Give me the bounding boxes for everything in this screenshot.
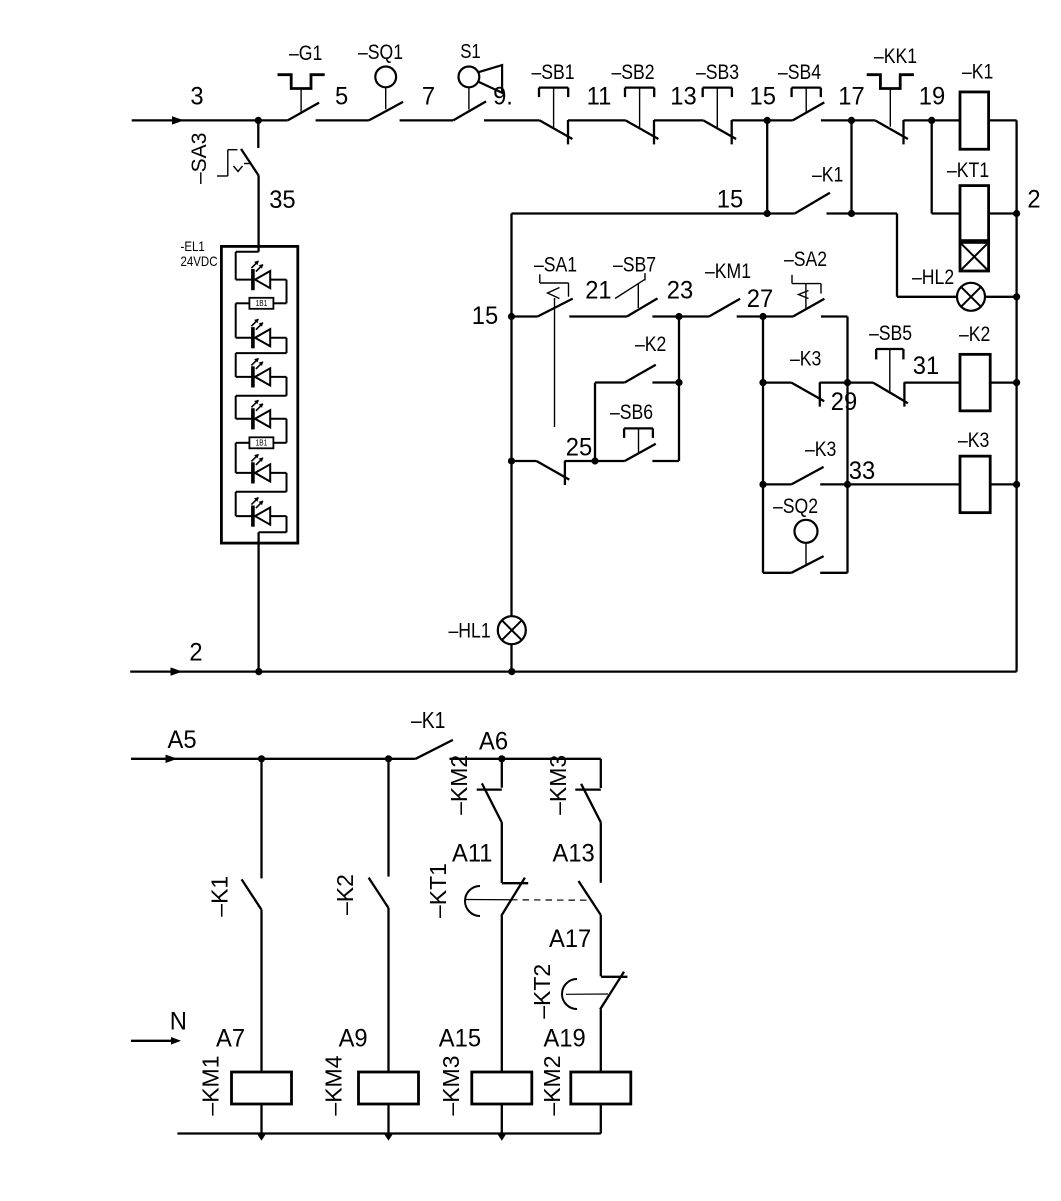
svg-text:9.: 9. (493, 83, 513, 111)
pushbutton -SB2 NC contact (626, 120, 659, 144)
label -SA2 (784, 248, 827, 272)
svg-text:A5: A5 (168, 726, 197, 754)
node label 2 bottom (189, 639, 202, 667)
label -KM4 (321, 1055, 347, 1115)
wire: col2 coil to N rail (384, 1104, 392, 1141)
label -SA1 (534, 253, 577, 277)
node label 25 (566, 434, 592, 462)
wire: K2 subrow seg (595, 381, 625, 383)
svg-text:23: 23 (667, 277, 693, 305)
svg-text:–K1: –K1 (411, 709, 445, 734)
wire: SQ2 branch bottom right (820, 572, 847, 574)
node label 15 (749, 83, 775, 111)
svg-text:–SQ1: –SQ1 (358, 41, 403, 65)
svg-text:A9: A9 (339, 1025, 368, 1053)
wire: N feed arrow (131, 1037, 181, 1045)
selector -SA1 actuator (540, 274, 569, 427)
wire: row3 seg1 (512, 315, 538, 317)
wire: row33 seg2 (820, 483, 960, 485)
svg-text:24VDC: 24VDC (181, 253, 218, 269)
label -SA3 (188, 133, 211, 184)
wire: row3 seg6 (763, 315, 793, 317)
node label 33 (849, 457, 875, 485)
node junction 27-col row29 (759, 379, 766, 386)
pushbutton -SB7 NO contact blade (627, 298, 658, 316)
svg-text:–K3: –K3 (790, 347, 821, 371)
node label A17 (549, 925, 591, 953)
node label 31 (913, 352, 939, 380)
svg-text:–SB3: –SB3 (696, 61, 739, 85)
wire: row29 seg1 (763, 381, 791, 383)
label -KM3 bottom (438, 1056, 464, 1116)
wire: row3 seg3 (652, 315, 679, 317)
label -HL2 (912, 266, 954, 290)
wire: node27 vertical (762, 317, 764, 573)
label -SB1 (532, 61, 575, 85)
timer actuator -KT1 arc and link (465, 886, 588, 916)
wire: line segment KK1 to coil K1 (904, 119, 961, 121)
label -KM2 col3 (446, 755, 472, 815)
contact -KM3 NO col4 (575, 784, 601, 823)
node label 35 (269, 186, 295, 214)
wire: node15 vertical drop (766, 120, 768, 213)
svg-text:19: 19 (919, 83, 945, 111)
label -G1 (289, 42, 322, 66)
LED panel -EL1 enclosure (221, 246, 297, 543)
svg-text:35: 35 (269, 186, 295, 214)
svg-text:2: 2 (189, 639, 202, 667)
svg-text:15: 15 (749, 83, 775, 111)
svg-text:5: 5 (335, 83, 348, 111)
node label 9. (493, 83, 513, 111)
svg-text:A6: A6 (479, 728, 508, 756)
selector -SA3 actuator (217, 150, 251, 176)
pushbutton -SB1 actuator (539, 88, 568, 128)
pushbutton -SB6 actuator (624, 428, 653, 452)
pushbutton -SB4 actuator (792, 88, 821, 112)
label -KT2 (529, 964, 555, 1019)
wire: line segment SB4 to KK1 (821, 119, 875, 121)
node 17 junction (848, 117, 855, 124)
node label A6 (479, 728, 508, 756)
wire: line 3 segment G1 to SQ1 (316, 119, 369, 121)
node label 15 row3 (472, 302, 498, 330)
svg-text:–K2: –K2 (332, 874, 358, 915)
node label 3 (190, 83, 203, 111)
node label 5 (335, 83, 348, 111)
label -KM1 (198, 1056, 224, 1116)
node junction 27 (759, 313, 766, 320)
svg-text:–KK1: –KK1 (874, 45, 917, 69)
wire: right rail vertical (1015, 120, 1017, 671)
node label 21 (585, 277, 611, 305)
svg-text:21: 21 (585, 277, 611, 305)
wire: col4 corner from A5 (600, 759, 602, 788)
label -SB4 (778, 61, 821, 85)
node label 29 (831, 388, 857, 416)
wire: line A5 feed (131, 755, 416, 763)
svg-text:–SB7: –SB7 (613, 253, 656, 277)
label -HL1 (449, 619, 491, 643)
node label 13 (670, 83, 696, 111)
pushbutton -SB4 NO contact (793, 102, 825, 120)
contact -K3 NO row33 (791, 467, 823, 485)
svg-text:17: 17 (838, 83, 864, 111)
wire: branch node19 down to KT1 (932, 120, 960, 213)
LED D4 in -EL1 (236, 400, 287, 430)
svg-text:A11: A11 (452, 840, 492, 868)
LED D5 in -EL1 (236, 454, 287, 484)
svg-text:–K1: –K1 (207, 876, 233, 917)
svg-text:–KM4: –KM4 (321, 1055, 347, 1115)
svg-text:–KM3: –KM3 (545, 755, 571, 815)
svg-text:–SB2: –SB2 (612, 61, 655, 85)
svg-text:–KM1: –KM1 (705, 260, 751, 284)
svg-text:2: 2 (1027, 186, 1040, 214)
svg-text:–G1: –G1 (289, 42, 322, 66)
lamp -HL1 (498, 616, 526, 644)
label -SB7 (613, 253, 656, 277)
svg-text:27: 27 (747, 285, 773, 313)
timer -KT1 delay element (crossed box) (960, 242, 989, 271)
wire: EL1 internal series wiring (236, 252, 287, 533)
node junction right rail K2 (1013, 379, 1020, 386)
label N (170, 1008, 187, 1036)
contactor coil -KM3 (bottom) (472, 1072, 532, 1104)
selector -SA2 contact blade (793, 299, 824, 317)
wire: col3 mid (501, 822, 503, 883)
pushbutton -SB6 NO contact (625, 444, 656, 461)
svg-text:–SB6: –SB6 (610, 401, 653, 425)
svg-text:N: N (170, 1008, 187, 1036)
wire: row33 seg1 (763, 483, 791, 485)
wire: col3 upper (501, 759, 503, 788)
contact -KM2 NO col3 (477, 783, 502, 822)
svg-text:–SA1: –SA1 (534, 253, 577, 277)
svg-text:A13: A13 (553, 840, 595, 868)
wire: row25 seg2 (565, 460, 595, 462)
svg-text:–K3: –K3 (958, 429, 989, 453)
label -SQ1 (358, 41, 403, 65)
contact -K1 NO on line A5 (416, 740, 453, 759)
node label 2 right (1027, 186, 1040, 214)
svg-text:13: 13 (670, 83, 696, 111)
contactor coil -KM1 (232, 1072, 292, 1104)
pushbutton -SB3 NC contact (703, 120, 736, 144)
thermal relay -KK1 actuator (867, 75, 914, 127)
lamp -HL2 (957, 283, 985, 311)
wire: line segment SB1 to SB2 (568, 119, 626, 121)
contact -K2 NO (625, 365, 656, 383)
wire: col3 coil to N rail (498, 1104, 506, 1141)
timed contact -KT2 col4 (600, 972, 627, 1010)
wire: col4 lower (600, 1009, 602, 1072)
wire: line 3 segment SQ1 to S1 (400, 119, 454, 121)
selector -SA2 actuator (792, 275, 821, 308)
svg-text:25: 25 (566, 434, 592, 462)
svg-text:33: 33 (849, 457, 875, 485)
node junction line2 HL1 (508, 668, 515, 675)
node junction 25 (591, 457, 598, 464)
svg-text:–KT1: –KT1 (947, 159, 989, 183)
wire: col4 coil to N rail (600, 1104, 602, 1134)
pushbutton -SB3 actuator (703, 88, 732, 128)
svg-text:A17: A17 (549, 925, 591, 953)
label -SB3 (696, 61, 739, 85)
node label A9 (339, 1025, 368, 1053)
wire: coil K3 to right rail (990, 483, 1016, 485)
label -K3 row29 (790, 347, 821, 371)
label -K1 lower (411, 709, 445, 734)
node label A5 (168, 726, 197, 754)
svg-text:11: 11 (587, 83, 612, 111)
label -EL1 (181, 238, 205, 254)
contact -K1 NO (self hold) (795, 193, 830, 214)
svg-text:–KM1: –KM1 (198, 1056, 224, 1116)
node label 23 (667, 277, 693, 305)
node label 15 row2 (717, 186, 743, 214)
wire: line 3 left feed with arrow (132, 116, 288, 124)
wire: col3 lower (501, 916, 503, 1072)
wire: SA3 to EL1 box (257, 176, 259, 252)
svg-text:A15: A15 (439, 1025, 481, 1053)
svg-text:–K3: –K3 (805, 438, 836, 462)
selector -SA1 second NC contact (537, 461, 570, 485)
svg-text:–HL2: –HL2 (912, 266, 954, 290)
svg-text:–KT1: –KT1 (425, 863, 451, 918)
wire: line A5 seg2 (450, 758, 601, 760)
wire: line segment SB3 to node 15 (732, 119, 793, 121)
node 15 junction (764, 117, 771, 124)
LED D1 in -EL1 (236, 261, 287, 291)
label -K2 col2 (332, 874, 358, 915)
node label 17 (838, 83, 864, 111)
wire: row29 seg2 (820, 381, 873, 383)
node junction row2 x767 (764, 210, 771, 217)
node junction x847 row33 (844, 481, 851, 488)
node label 19 (919, 83, 945, 111)
node junction line2 x259 (255, 668, 262, 675)
resistor 1B1 lower (236, 437, 287, 448)
label -SQ2 (773, 495, 818, 519)
wire: K2 branch riser (594, 383, 596, 462)
timed contact -KT1 col4 (linked) (579, 881, 601, 915)
node junction right rail at KT1 row (1013, 210, 1020, 217)
pushbutton -SB5 actuator (876, 349, 903, 393)
wire: row3 seg4 (679, 315, 709, 317)
wire: node17 vertical drop (850, 120, 852, 213)
wire: col2 lower (387, 908, 389, 1072)
label -KM3 col4 (545, 755, 571, 815)
node junction x679 K2 row (675, 379, 682, 386)
node junction row3 left (508, 313, 515, 320)
svg-text:–K1: –K1 (962, 60, 993, 84)
svg-text:15: 15 (717, 186, 743, 214)
wire: row 15 self-hold line (512, 212, 898, 214)
label -K1 coil (962, 60, 993, 84)
node junction right rail HL2 (1013, 293, 1020, 300)
wire: col4 mid2 (600, 915, 602, 976)
node label A7 (216, 1025, 245, 1053)
wire: x259 drop to SA3 (257, 120, 259, 148)
wire: col2 upper (387, 759, 389, 877)
svg-text:–SB1: –SB1 (532, 61, 575, 85)
wire: neutral rail N (177, 1132, 600, 1134)
node junction right rail K3 (1013, 481, 1020, 488)
node label A19 (544, 1025, 586, 1053)
LED D3 in -EL1 (236, 358, 287, 388)
svg-text:1B1: 1B1 (256, 298, 268, 308)
node junction A5 col1 (258, 755, 265, 762)
contact -K2 vertical NO col2 (369, 878, 389, 908)
svg-text:–KM2: –KM2 (539, 1056, 565, 1116)
node junction A6 (498, 755, 505, 762)
pushbutton -SB1 NC contact (540, 120, 573, 144)
limit switch -SQ1 head (circle) (375, 67, 396, 110)
wire: col4 mid1 (600, 822, 602, 883)
node 19 junction (928, 117, 935, 124)
label -K2 contact (635, 333, 666, 357)
switch -G1 thermal-style actuator (278, 75, 325, 112)
contact -K3 NC row29 (791, 382, 824, 406)
svg-text:29: 29 (831, 388, 857, 416)
limit switch -SQ2 NO contact (791, 556, 823, 573)
label -K3 coil (958, 429, 989, 453)
label -KT1 lower (425, 863, 451, 918)
svg-text:15: 15 (472, 302, 498, 330)
svg-text:–K2: –K2 (959, 323, 990, 347)
relay coil -K2 (960, 354, 990, 411)
node label 11 (587, 83, 612, 111)
switch -SQ1 contact blade (369, 102, 403, 121)
node junction row25 left (508, 457, 515, 464)
wire: row3 seg5 (737, 315, 763, 317)
svg-text:3: 3 (190, 83, 203, 111)
label S1 (460, 40, 481, 63)
svg-text:A7: A7 (216, 1025, 245, 1053)
contact -KM1 NO (709, 299, 740, 317)
wire: SQ2 branch bottom left (763, 572, 791, 574)
node junction at x259 on line 3 (255, 117, 262, 124)
wire: row2 corner down to lamp HL2 (897, 214, 957, 297)
svg-text:S1: S1 (460, 40, 481, 63)
wire: row25 seg4 (652, 460, 679, 462)
svg-text:–HL1: –HL1 (449, 619, 491, 643)
node junction row2 x851 (848, 210, 855, 217)
svg-text:-EL1: -EL1 (181, 238, 205, 254)
svg-text:–K2: –K2 (635, 333, 666, 357)
selector -SA1 contact blade row3 (538, 299, 573, 317)
wire: line 2 bottom rail (130, 667, 1016, 675)
wire: coil K2 to right rail (990, 381, 1016, 383)
wire: line 3 segment S1 to SB1 (484, 119, 540, 121)
LED D6 in -EL1 (236, 497, 287, 527)
contactor coil -KM2 (bottom) (571, 1072, 631, 1104)
svg-text:1B1: 1B1 (256, 438, 268, 448)
thermal relay -KK1 NC contact (875, 120, 908, 144)
node label 27 (747, 285, 773, 313)
relay coil -K3 (960, 456, 990, 513)
contact -K1 vertical NO col1 (242, 879, 262, 909)
timed contact -KT1 col3 (501, 878, 528, 916)
svg-text:A19: A19 (544, 1025, 586, 1053)
pushbutton -SB7 actuator (615, 273, 645, 308)
switch S1 contact blade (453, 101, 486, 120)
timer actuator -KT2 arc and link (562, 979, 608, 1009)
wire: col1 coil to N rail (257, 1104, 265, 1141)
wire: row3 seg7 corner down (821, 317, 848, 573)
svg-text:31: 31 (913, 352, 939, 380)
pushbutton -SB5 NC contact (873, 382, 908, 406)
wire: col1 lower (260, 910, 262, 1072)
label -K1 contact row2 (812, 163, 843, 187)
relay coil -K1 (960, 92, 989, 149)
wire: row25 seg3 to SB6 (595, 460, 625, 462)
LED D2 in -EL1 (236, 319, 287, 349)
label -KM2 bottom (539, 1056, 565, 1116)
switch -G1 contact blade (288, 103, 319, 121)
svg-text:–KT2: –KT2 (529, 964, 555, 1019)
label 24VDC (181, 253, 218, 269)
label -KT1 coil (947, 159, 989, 183)
svg-text:–KM3: –KM3 (438, 1056, 464, 1116)
label -SB6 (610, 401, 653, 425)
svg-text:–SQ2: –SQ2 (773, 495, 818, 519)
node junction x847 row29 (844, 379, 851, 386)
svg-text:–SB5: –SB5 (869, 322, 912, 346)
wire: EL1 exit to line 2 (257, 532, 259, 671)
wire: line segment SB2 to SB3 (654, 119, 703, 121)
node label A11 (452, 840, 492, 868)
contactor coil -KM4 (359, 1072, 419, 1104)
label -K2 coil (959, 323, 990, 347)
label -KK1 (874, 45, 917, 69)
limit switch -SQ2 head (795, 520, 818, 565)
wire: coil K1 to right rail corner (989, 119, 1017, 121)
node junction 27-col row33 (759, 481, 766, 488)
svg-text:–SA2: –SA2 (784, 248, 827, 272)
label -SB5 (869, 322, 912, 346)
label -KM1 (705, 260, 751, 284)
wire: HL2 to right rail (985, 296, 1017, 298)
node junction A5 col2 (385, 755, 392, 762)
svg-text:7: 7 (422, 83, 435, 111)
node label 7 (422, 83, 435, 111)
resistor 1B1 upper (236, 298, 287, 309)
svg-text:–K1: –K1 (812, 163, 843, 187)
label -K3 row33 (805, 438, 836, 462)
wire: row29 seg3 to coil K2 (904, 381, 960, 383)
wire: K2 subrow to x679 (652, 381, 679, 383)
wire: KT1 to right rail (989, 212, 1017, 214)
wire: mid-block left rail (510, 214, 512, 672)
timer coil -KT1 (960, 186, 989, 241)
node junction 23 (675, 313, 682, 320)
node label A15 (439, 1025, 481, 1053)
wire: col1 upper (260, 759, 262, 879)
node label A13 (553, 840, 595, 868)
pushbutton -SB2 actuator (625, 88, 654, 128)
svg-text:–SA3: –SA3 (188, 133, 211, 184)
wire: row25 seg1 (512, 460, 537, 462)
siren switch S1 head (circle + horn) (459, 65, 503, 109)
wire: row3 seg2 (569, 315, 627, 317)
svg-text:–SB4: –SB4 (778, 61, 821, 85)
selector -SA3 vertical NO contact (241, 149, 259, 176)
label -K1 col1 (207, 876, 233, 917)
svg-text:–KM2: –KM2 (446, 755, 472, 815)
wire: x679 vertical (678, 317, 680, 462)
